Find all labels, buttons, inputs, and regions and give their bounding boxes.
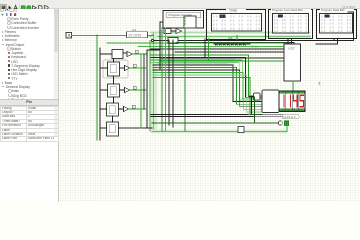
wire mesh horizontals xyxy=(107,43,290,52)
bus vertical left xyxy=(99,48,101,140)
explorer scrollbar xyxy=(54,9,58,137)
mini toolbar row2 xyxy=(1,8,17,12)
wire black top run xyxy=(154,40,354,42)
buffer B1 xyxy=(249,93,260,100)
wire staircase B6 xyxy=(153,78,262,115)
wire staircase A1 xyxy=(150,55,262,96)
frame Program Data Bits xyxy=(317,8,357,39)
svg-text:00 00 00 00 00 00: 00 00 00 00 00 00 xyxy=(213,20,260,23)
frame left vertical xyxy=(160,22,163,70)
flip-flop unit FF5 xyxy=(100,122,152,136)
seven-segment digits xyxy=(279,91,305,112)
wire pale green vertical band xyxy=(151,33,157,133)
svg-text:22:13:51: 22:13:51 xyxy=(129,34,142,38)
chip U2 xyxy=(284,44,301,81)
svg-text:00 00 00 00 00 00: 00 00 00 00 00 00 xyxy=(213,16,260,19)
wire drop to probe line xyxy=(254,97,256,123)
register small R2 xyxy=(168,38,178,44)
toolbar xyxy=(0,0,360,9)
register PC xyxy=(184,16,196,28)
gate G2 xyxy=(176,29,182,34)
svg-text:Clk: Clk xyxy=(228,36,233,40)
wire column outputs up xyxy=(147,50,160,54)
label Program Counter xyxy=(167,12,201,18)
bus vertical right of column xyxy=(146,50,148,127)
wire staircase A3 xyxy=(150,60,262,99)
wire pale green band bottom xyxy=(152,130,287,134)
LED out xyxy=(284,121,289,126)
wire clock junction xyxy=(96,35,153,37)
clock CLK1 xyxy=(66,33,71,38)
frame Program Command Bits xyxy=(269,8,313,39)
wire vertical green left xyxy=(96,35,98,140)
mini toolbar row3 xyxy=(1,13,16,16)
wire clock to frame xyxy=(71,34,152,36)
cursor glyph xyxy=(318,81,321,85)
wire vertical green col3 xyxy=(140,54,142,128)
probe P2 xyxy=(279,121,283,125)
flip-flop unit FF4 xyxy=(100,103,147,116)
flip-flop unit FF2 xyxy=(100,62,147,76)
ROM Program Command Bits xyxy=(273,14,309,34)
wire pale green band A xyxy=(150,31,310,34)
wire chip input B xyxy=(160,60,283,62)
wire vertical green col2 xyxy=(149,41,151,132)
wire pale green band C xyxy=(150,58,235,65)
svg-text:00 00 00 00 0: 00 00 00 00 0 xyxy=(274,19,308,22)
wire Timer clk xyxy=(228,36,237,41)
label time pill xyxy=(282,115,299,119)
wire staircase B2 xyxy=(153,68,262,105)
wire to probe xyxy=(152,122,279,124)
subcircuit frame Program Counter xyxy=(163,11,204,29)
splitter fan under Timer xyxy=(214,44,260,49)
svg-text:00 00 00 00 0: 00 00 00 00 0 xyxy=(274,23,308,26)
svg-text:CLK RST: CLK RST xyxy=(342,6,356,10)
flip-flop unit FF3 xyxy=(100,84,147,97)
wire staircase A4 xyxy=(150,63,262,100)
wire to pill 2 xyxy=(152,115,282,117)
wire bottom run 1 xyxy=(150,114,248,116)
wire bottom run 2 xyxy=(150,116,253,118)
wire verticals center xyxy=(161,28,163,131)
wire LED to band xyxy=(286,126,288,132)
gate G1 xyxy=(164,29,175,34)
svg-text:12:45:11 P: 12:45:11 P xyxy=(283,115,296,119)
selection halo FF2 xyxy=(103,60,128,78)
wire drop to pill line xyxy=(251,96,253,114)
svg-text:Clk: Clk xyxy=(132,28,137,32)
wire staircase B4 xyxy=(153,73,262,110)
wire to pill xyxy=(150,113,282,115)
display controller box xyxy=(262,90,279,113)
wire staircase B5 xyxy=(153,75,262,112)
wire staircase A2 xyxy=(150,58,262,98)
wire chip to display xyxy=(292,81,294,91)
ROM Timer xyxy=(212,14,262,32)
svg-text:u2U: u2U xyxy=(289,47,296,51)
node J1 xyxy=(151,39,153,41)
svg-text:00 00 00 00 0: 00 00 00 00 0 xyxy=(274,30,308,33)
wire staircase B3 xyxy=(153,70,262,107)
wire chip input A xyxy=(160,57,283,59)
pin box small xyxy=(238,127,244,133)
svg-text:00 00 00 00 0: 00 00 00 00 0 xyxy=(274,26,308,29)
ROM Program Data Bits xyxy=(320,14,353,34)
counter Clk value box xyxy=(127,28,148,38)
wire upper run 2 xyxy=(176,43,294,57)
frame Timer xyxy=(207,8,266,40)
wire staircase B1 xyxy=(153,65,262,102)
flip-flop unit FF1 xyxy=(100,50,147,59)
wire inter-unit verticals xyxy=(113,59,114,123)
svg-text:00 00 00 00 00 00: 00 00 00 00 00 00 xyxy=(213,28,260,31)
svg-text:00 00 00 00 00 00: 00 00 00 00 00 00 xyxy=(213,24,260,27)
wire vertical black col3 xyxy=(143,54,145,109)
wire pale green band B xyxy=(150,35,310,38)
left panel xyxy=(0,9,59,202)
svg-text:00 00 00 00 0: 00 00 00 00 0 xyxy=(274,15,308,18)
